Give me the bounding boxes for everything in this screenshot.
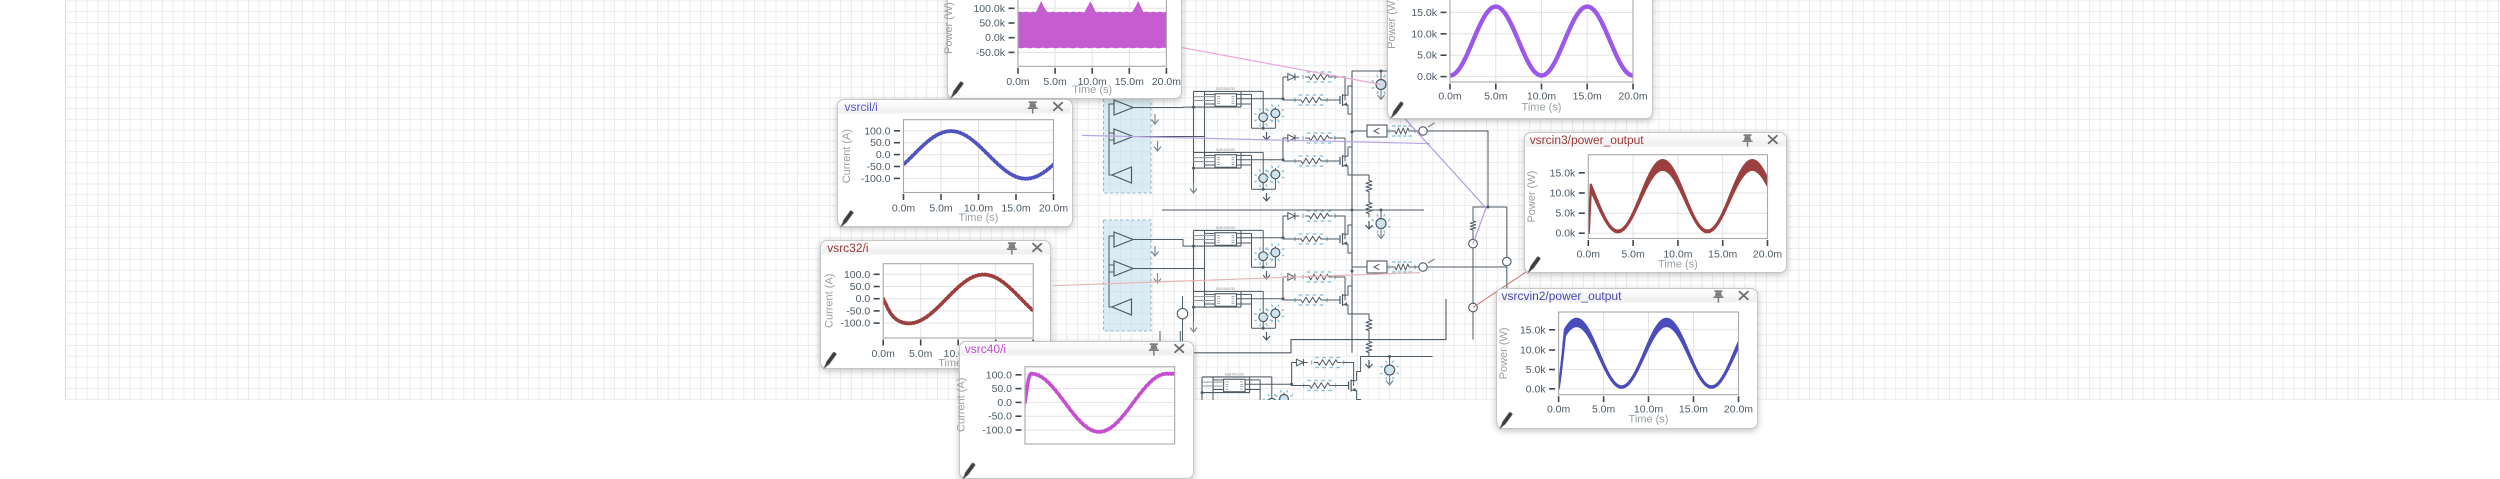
plot window C: vsrc32/i (820, 240, 1052, 369)
wire pair3 bus (1192, 340, 1446, 353)
svg-text:5.0m: 5.0m (1621, 249, 1645, 260)
svg-text:100.0: 100.0 (986, 370, 1012, 381)
svg-text:5.0m: 5.0m (1043, 76, 1067, 88)
wire cell 239 right out (1237, 237, 1284, 239)
op-amp block U2 selection box (1104, 220, 1152, 331)
wire pair2 inner bus (1204, 230, 1206, 307)
svg-text:5.0k: 5.0k (1526, 365, 1547, 376)
svg-text:15.0m: 15.0m (1708, 249, 1737, 260)
svg-text:10.0k: 10.0k (1549, 188, 1575, 199)
wire P3 column (1506, 207, 1508, 257)
svg-text:0.0k: 0.0k (1417, 72, 1438, 83)
transistor M300 (1329, 299, 1340, 301)
op-amp U2A (1114, 232, 1133, 247)
voltage source V161b (1274, 168, 1276, 170)
svg-text:SUB INV/15V: SUB INV/15V (1216, 148, 1236, 152)
wire cell 385 input pins (1202, 381, 1224, 383)
svg-text:Power (W): Power (W) (943, 2, 955, 54)
transformer T161 (1215, 155, 1237, 168)
plot window A: Power (W) (947, 0, 1183, 99)
wire output row 2 (1352, 266, 1367, 268)
svg-text:15.0m: 15.0m (1001, 202, 1030, 214)
svg-text:10.0k: 10.0k (1411, 29, 1437, 40)
waveform blue current trace vsrcil (904, 130, 1054, 178)
wire cell 239 right bracket (1240, 230, 1242, 246)
svg-text:0.0: 0.0 (855, 294, 870, 305)
ground flag I239 (1380, 229, 1382, 239)
wire to switch 2 (1413, 266, 1419, 268)
resistor R300a (1306, 274, 1333, 280)
probe wire magenta (window A) (1179, 47, 1381, 85)
svg-text:0.0m: 0.0m (871, 348, 895, 359)
voltage source V100b (1274, 107, 1276, 109)
resistor R100b (1298, 97, 1325, 103)
node cell 300 gnd (1262, 327, 1265, 330)
probe point P2 (1469, 303, 1478, 312)
op-amp block U1 selection box (1104, 88, 1152, 193)
transformer T100 (1215, 94, 1237, 107)
diode D300 (1288, 274, 1295, 281)
svg-text:10.0k: 10.0k (1520, 345, 1546, 356)
svg-text:Power (W): Power (W) (1525, 170, 1537, 222)
wire top bus 239 (1352, 209, 1424, 211)
wire op-amp block U2 internal (1109, 236, 1112, 307)
wire cell 300 right out (1237, 298, 1284, 300)
svg-text:Time (s): Time (s) (959, 212, 999, 224)
wire switch 1 out (1427, 130, 1455, 132)
wire pair1 left bus (1193, 91, 1195, 184)
voltage source V385b (1283, 393, 1285, 395)
node top bus 100 (1380, 70, 1383, 73)
svg-text:50.0: 50.0 (870, 137, 891, 149)
resistor Rs4a (1366, 316, 1372, 334)
wire M100 drain (1348, 71, 1352, 89)
ground flag I100 (1380, 90, 1382, 100)
wire M161 source (1348, 172, 1352, 175)
svg-text:0.0m: 0.0m (1438, 92, 1462, 103)
wire row2 out (1455, 266, 1507, 268)
svg-text:50.0: 50.0 (850, 282, 871, 293)
resistor R300b (1298, 297, 1325, 303)
svg-text:50.0: 50.0 (992, 384, 1013, 395)
node load junction (1487, 206, 1490, 209)
node cell 385 left (1201, 391, 1204, 394)
plot window G: vsrcvin2/power_output (1496, 288, 1758, 430)
ammeter box AM2 (1367, 261, 1387, 273)
node cell 300 left (1192, 306, 1195, 309)
wire diode loop 161 (1283, 138, 1284, 160)
ground flag I385 (1389, 375, 1391, 385)
switch SW2 (1419, 263, 1427, 271)
svg-text:5.0m: 5.0m (1592, 404, 1616, 415)
node drain rail j2 (1351, 209, 1354, 212)
resistor R161b (1298, 158, 1325, 164)
svg-text:5.0k: 5.0k (1417, 51, 1438, 62)
wire cell 161 right out (1237, 159, 1284, 161)
op-amp U1A (1114, 100, 1133, 115)
ground cell 239 (1266, 271, 1268, 279)
op-amp U2B (1114, 261, 1133, 276)
svg-text:100.0k: 100.0k (973, 3, 1005, 15)
svg-text:-50.0: -50.0 (867, 161, 891, 173)
wire cell 385 gnd bus (1271, 407, 1273, 414)
diode D161 (1288, 135, 1295, 142)
svg-text:0.0m: 0.0m (1547, 404, 1571, 415)
flag arrow U1B (1157, 141, 1159, 151)
svg-text:SUB INV/15V: SUB INV/15V (1216, 226, 1236, 230)
resistor Rout2 (1387, 266, 1392, 268)
wire M239 drain (1348, 210, 1352, 228)
svg-text:-100.0: -100.0 (982, 426, 1012, 437)
flag arrow U1A (1154, 114, 1156, 124)
transistor M239 (1329, 238, 1340, 240)
wire P3 down (1506, 267, 1508, 335)
voltage source V239b (1274, 246, 1276, 248)
probe wire violet steep (window E) (1397, 110, 1486, 244)
wire row1 to load (1427, 131, 1488, 207)
node diode loop 161 (1282, 158, 1285, 161)
ground Rtop (1456, 87, 1458, 95)
svg-text:15.0k: 15.0k (1411, 8, 1437, 19)
wire M385 source (1357, 397, 1361, 400)
svg-text:vsrc40/i: vsrc40/i (965, 342, 1006, 356)
svg-text:20.0m: 20.0m (1618, 92, 1647, 103)
wire cell 100 right bracket (1240, 91, 1242, 107)
voltage source V385a (1250, 376, 1272, 378)
op-amp U2C (1112, 299, 1132, 315)
svg-text:vsrcvin2/power_output: vsrcvin2/power_output (1501, 289, 1622, 303)
wire op-amp U1B output (1133, 136, 1205, 138)
probe wire violet shallow (1082, 135, 1430, 143)
node diode loop 300 (1282, 297, 1285, 300)
op-amp U1C (1112, 167, 1132, 183)
resistor R239b (1298, 236, 1325, 242)
wire cell 100 left bracket (1194, 90, 1242, 92)
wire M4 source to stack (1352, 314, 1369, 316)
plot window F: vsrcin3/power_output (1524, 132, 1787, 274)
waveform violet power trace (1450, 7, 1633, 76)
wire pair3 left bus (1201, 377, 1203, 400)
svg-text:100.0: 100.0 (864, 125, 890, 137)
node diode loop 385 (1290, 383, 1293, 386)
svg-text:0.0k: 0.0k (985, 32, 1006, 44)
wire op-amp U2A output (1133, 240, 1194, 247)
ground cell 161 (1266, 193, 1268, 201)
waveform dark red power trace vsrcin3 (1588, 160, 1767, 233)
wire cell 300 gnd bus (1262, 322, 1264, 329)
svg-text:SUB INV/15V: SUB INV/15V (1216, 287, 1236, 291)
wire cell 100 input pins (1194, 96, 1216, 98)
node top bus 239 (1380, 209, 1383, 212)
diode D100 (1288, 74, 1295, 81)
wire diode loop 239 (1283, 216, 1284, 238)
resistor Rload1 (1470, 218, 1476, 234)
transformer T300 (1215, 294, 1237, 307)
wire cell 161 left bracket (1194, 151, 1242, 153)
probe point P1 (1469, 239, 1478, 248)
svg-text:15.0k: 15.0k (1549, 168, 1575, 179)
waveform blue power trace vsrcvin2 (1559, 319, 1739, 389)
wire M2 source to stack (1352, 175, 1369, 177)
voltage source V100a (1241, 90, 1263, 92)
node drain rail j1 (1351, 131, 1354, 134)
wire cell 161 gnd bus (1262, 183, 1264, 190)
svg-text:Time (s): Time (s) (1522, 101, 1562, 113)
waveform magenta current trace vsrc40 (1025, 374, 1175, 433)
wire diode loop 385 (1292, 363, 1293, 385)
transformer T239 (1215, 233, 1237, 246)
wire M385 drain (1357, 357, 1361, 375)
wire cell 239 gnd bus (1262, 261, 1264, 268)
resistor R239a (1306, 213, 1333, 219)
voltage source V300a (1241, 290, 1263, 292)
svg-text:15.0k: 15.0k (1520, 325, 1546, 336)
ground stack 2 (1368, 221, 1370, 229)
svg-text:5.0m: 5.0m (929, 202, 953, 214)
svg-text:15.0m: 15.0m (1114, 76, 1143, 88)
svg-text:15.0m: 15.0m (1679, 404, 1708, 415)
resistor Rtop (1424, 70, 1457, 72)
svg-text:20.0m: 20.0m (1752, 249, 1781, 260)
wire M300 source (1348, 311, 1352, 314)
flag arrow U2A (1154, 246, 1156, 256)
node cell 385 gnd (1270, 412, 1273, 415)
node diode loop 100 (1282, 97, 1285, 100)
node cell 161 left (1192, 167, 1195, 170)
waveform dark red current trace vsrc32 (883, 274, 1033, 323)
node top bus 385 (1388, 355, 1391, 358)
wire cell 300 input pins (1194, 296, 1216, 298)
wire P1 down (1472, 248, 1474, 303)
wire load cross (1473, 206, 1507, 208)
wire block2 feed lines (1159, 331, 1161, 354)
resistor R161a (1306, 135, 1333, 141)
svg-text:Current (A): Current (A) (823, 273, 835, 327)
wire cell 100 right out (1237, 98, 1284, 100)
svg-text:Current (A): Current (A) (955, 378, 967, 432)
svg-text:SUB INV/15V: SUB INV/15V (1216, 87, 1236, 91)
svg-text:Time (s): Time (s) (1629, 413, 1669, 425)
wire cell 100 gnd bus (1262, 122, 1264, 129)
ground stack 4 (1368, 360, 1370, 368)
resistor R100a (1306, 74, 1333, 80)
svg-text:15.0m: 15.0m (1573, 92, 1602, 103)
svg-text:vsrcil/i: vsrcil/i (845, 99, 878, 113)
ground cell 385 (1274, 418, 1276, 426)
transformer T385 (1224, 379, 1246, 392)
resistor R385b (1306, 383, 1333, 389)
voltage source V239a (1241, 229, 1263, 231)
svg-text:100.0: 100.0 (844, 269, 870, 280)
probe wire salmon shallow (1053, 273, 1420, 286)
diode D385 (1296, 359, 1303, 366)
transistor M100 (1329, 99, 1340, 101)
wire pair1 inner bus (1204, 91, 1206, 168)
svg-text:Power (W): Power (W) (1386, 0, 1398, 49)
svg-text:-50.0k: -50.0k (975, 47, 1005, 59)
wire switch 2 out (1427, 266, 1455, 268)
svg-text:Power (W): Power (W) (1498, 327, 1510, 379)
probe wire red steep (window F) (1473, 272, 1526, 308)
diode D239 (1288, 213, 1295, 220)
wire diode loop 300 (1283, 277, 1284, 299)
wire to switch 1 (1413, 130, 1419, 132)
node diode loop 239 (1282, 236, 1285, 239)
svg-text:vsrcin3/power_output: vsrcin3/power_output (1529, 132, 1644, 146)
wire cell 239 left bracket (1194, 229, 1242, 231)
wire op-amp U2B output (1133, 268, 1205, 270)
flag arrow U2B (1157, 273, 1159, 283)
svg-text:20.0m: 20.0m (1151, 76, 1180, 88)
node cell 161 gnd (1262, 188, 1265, 191)
plot window D: vsrc40/i (959, 341, 1194, 479)
wire drain rail (1351, 71, 1353, 353)
current source I385 (1389, 357, 1391, 366)
svg-text:0.0m: 0.0m (1006, 76, 1030, 88)
transistor M385 (1338, 385, 1349, 387)
svg-text:-100.0: -100.0 (840, 318, 870, 329)
wire cell 385 right out (1245, 383, 1292, 385)
wire cell 300 right bracket (1240, 291, 1242, 307)
svg-text:0.0: 0.0 (876, 149, 891, 161)
wire pair3 bus riser (1445, 299, 1447, 340)
wire cell 161 right bracket (1240, 152, 1242, 168)
waveform magenta power trace (1018, 1, 1166, 48)
node drain rail j3 (1351, 270, 1354, 273)
wire op-amp block U1 internal (1109, 104, 1112, 175)
node cell 100 left (1192, 106, 1195, 109)
wire pair2 left bus (1193, 230, 1195, 323)
svg-text:0.0m: 0.0m (1576, 249, 1600, 260)
svg-text:SUB INV/15V: SUB INV/15V (1225, 372, 1245, 376)
wire M300 drain (1348, 271, 1352, 289)
voltage source V161a (1241, 151, 1263, 153)
svg-text:0.0k: 0.0k (1526, 384, 1547, 395)
wire cell 385 left bracket (1202, 376, 1250, 378)
svg-text:Current (A): Current (A) (841, 128, 853, 182)
svg-text:5.0k: 5.0k (1555, 208, 1576, 219)
wire P2 down (1472, 312, 1474, 340)
wire op-amp U1A output (1133, 106, 1194, 108)
svg-text:0.0m: 0.0m (892, 202, 916, 214)
wire cell3 bus left extension (1162, 209, 1352, 211)
wire cell 239 input pins (1194, 235, 1216, 237)
current source I100 (1380, 71, 1382, 80)
resistor Rout1 (1387, 130, 1392, 132)
wire output row 1 (1352, 130, 1367, 132)
resistor Rs4b (1366, 338, 1372, 356)
svg-text:20.0m: 20.0m (1724, 404, 1753, 415)
svg-text:0.0k: 0.0k (1555, 228, 1576, 239)
wire cell 161 input pins (1194, 157, 1216, 159)
wire M161 drain (1348, 132, 1352, 150)
wire cell 385 right bracket (1249, 377, 1251, 393)
transistor M161 (1329, 160, 1340, 162)
wire M239 source (1348, 250, 1352, 253)
ground flag pair2 bus (1193, 322, 1195, 332)
voltage source Vmid (1182, 319, 1184, 353)
canvas left edge line (65, 0, 66, 400)
svg-text:vsrc32/i: vsrc32/i (827, 240, 868, 254)
svg-text:20.0m: 20.0m (1039, 202, 1068, 214)
svg-text:Time (s): Time (s) (1657, 258, 1697, 270)
node cell 239 gnd (1262, 266, 1265, 269)
svg-text:-50.0: -50.0 (846, 306, 870, 317)
wire cell 300 left bracket (1194, 290, 1242, 292)
svg-text:Time (s): Time (s) (1072, 84, 1112, 96)
plot window B: vsrcil/i (837, 99, 1073, 228)
node cell 100 gnd (1262, 127, 1265, 130)
svg-text:5.0m: 5.0m (909, 348, 933, 359)
resistor Rs2a (1366, 177, 1372, 195)
current source I239 (1380, 210, 1382, 219)
node cell 239 left (1192, 245, 1195, 248)
resistor R385a (1314, 360, 1341, 366)
svg-text:50.0k: 50.0k (979, 18, 1005, 30)
ammeter box AM1 (1367, 125, 1387, 137)
svg-text:5.0m: 5.0m (1484, 92, 1508, 103)
probe point P3 (1503, 257, 1512, 266)
ground cell 300 (1266, 332, 1268, 340)
wire diode loop 100 (1283, 77, 1284, 99)
wire top bus 100 (1352, 70, 1424, 72)
voltage source V300b (1274, 307, 1276, 309)
ground flag pair1 bus (1193, 183, 1195, 193)
op-amp U1B (1114, 129, 1133, 144)
ground cell 100 (1266, 132, 1268, 140)
switch SW1 (1419, 127, 1427, 135)
resistor Rs2b (1366, 199, 1372, 217)
plot window E: Power (W) (1387, 0, 1653, 119)
svg-text:-50.0: -50.0 (988, 412, 1012, 423)
wire top bus 385 (1361, 356, 1433, 358)
svg-text:-100.0: -100.0 (861, 172, 891, 184)
wire pair3 inner bus (1212, 377, 1214, 400)
wire M100 source (1348, 111, 1352, 114)
